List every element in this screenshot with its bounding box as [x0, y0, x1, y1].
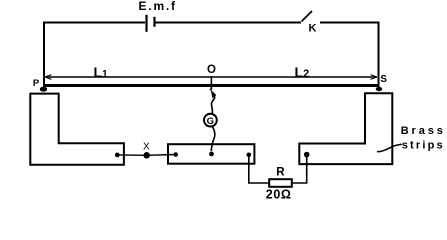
brass strip left (L-shape): [30, 94, 124, 165]
terminal dot middle strip right: [247, 153, 252, 158]
svg-text:S: S: [380, 74, 387, 85]
svg-text:O: O: [207, 64, 216, 76]
wire X to middle strip: [147, 154, 176, 157]
wire right vertical: [378, 22, 380, 90]
battery cell: [147, 15, 155, 32]
terminal dot middle strip left: [173, 152, 178, 157]
svg-text:L1: L1: [94, 64, 109, 80]
bridge wire P to S: [43, 84, 379, 87]
terminal dot galvanometer on strip: [209, 152, 214, 157]
label Brass strips: [401, 125, 446, 152]
svg-text:strips: strips: [402, 140, 445, 152]
wire top right (switch to right corner): [320, 22, 379, 24]
pointer line to brass strips: [377, 144, 402, 151]
node S dot: [376, 87, 383, 91]
wire resistor up to right strip: [292, 155, 307, 183]
svg-text:E.m.f: E.m.f: [139, 0, 177, 13]
wire left strip to X: [117, 154, 146, 156]
wire wavy galvanometer to strip: [211, 127, 215, 152]
resistor X node dot: [143, 152, 150, 159]
brass strip right (mirrored L-shape): [299, 93, 392, 164]
resistor R box: [269, 179, 292, 187]
svg-text:L2: L2: [295, 64, 310, 80]
svg-text:20Ω: 20Ω: [266, 187, 292, 201]
brass strip middle: [168, 144, 254, 164]
terminal dot left strip: [115, 153, 120, 158]
switch K blade: [302, 11, 313, 22]
jockey arrow at O: [211, 90, 216, 98]
svg-text:P: P: [33, 78, 40, 89]
terminal dot right strip: [304, 152, 310, 158]
galvanometer G: [204, 114, 217, 127]
svg-text:G: G: [207, 116, 214, 127]
svg-text:X: X: [143, 142, 150, 153]
length arrow line L1-L2 (P to S double arrow): [45, 75, 377, 90]
svg-text:R: R: [276, 167, 285, 179]
wire middle strip down to resistor: [249, 155, 269, 183]
wire top middle (battery to switch): [156, 22, 302, 24]
svg-text:K: K: [309, 23, 317, 35]
wire wavy jockey to galvanometer: [211, 97, 214, 114]
wire left vertical: [43, 22, 45, 90]
node P dot: [40, 87, 47, 92]
wire top left (battery to left corner): [44, 22, 145, 24]
svg-text:Brass: Brass: [401, 125, 446, 137]
